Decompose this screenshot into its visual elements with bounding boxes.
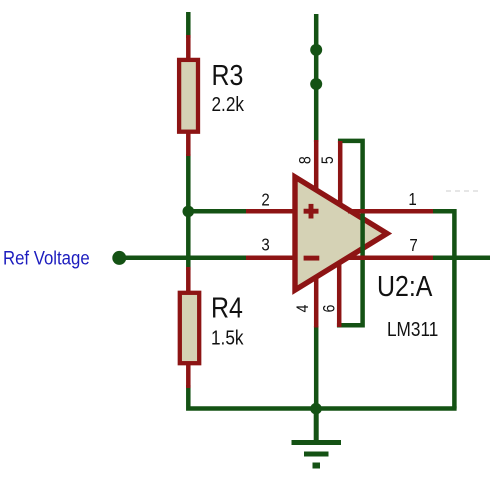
wire: loop connecting pin 5 to pin 6 (339, 141, 362, 325)
resistor R4 top lead (186, 267, 191, 294)
svg-text:R3: R3 (212, 59, 244, 91)
op-amp U2:A plus symbol (304, 204, 319, 219)
op-amp U2:A pin 6 stub (337, 263, 342, 327)
junction dot at bottom rail (310, 403, 322, 415)
op-amp U2:A pin 2 stub (246, 209, 295, 214)
wire: top-middle vertical (pin 8 net) (314, 14, 319, 142)
op-amp U2:A pin 5 stub (338, 141, 343, 204)
svg-text:LM311: LM311 (387, 318, 438, 341)
op-amp U2:A pin 7 stub (349, 256, 433, 261)
svg-text:U2:A: U2:A (377, 270, 432, 302)
svg-text:3: 3 (261, 236, 269, 255)
resistor R3 body (179, 60, 198, 132)
junction dot on top-middle net (upper) (310, 44, 322, 56)
wire: pin 4 down to bottom rail (314, 326, 319, 409)
op-amp U2:A pin 4 stub (314, 277, 319, 328)
svg-text:8: 8 (297, 156, 315, 164)
wire: pin 2 input from junction (188, 209, 248, 214)
svg-text:Ref Voltage: Ref Voltage (3, 247, 90, 268)
junction dot at pin 2 tap (183, 206, 195, 218)
op-amp U2:A pin 8 stub (314, 140, 319, 191)
svg-text:7: 7 (409, 236, 417, 255)
svg-text:1: 1 (408, 190, 416, 209)
resistor R3 bottom lead (186, 131, 191, 156)
op-amp U2:A pin 3 stub (246, 256, 295, 261)
faint dashed artifact top right (446, 190, 479, 192)
svg-text:1.5k: 1.5k (211, 326, 244, 349)
svg-text:2.2k: 2.2k (212, 93, 245, 116)
ground (292, 406, 342, 454)
svg-text:2: 2 (261, 190, 269, 209)
svg-text:R4: R4 (211, 292, 243, 324)
wire: Ref Voltage to pin 3 (119, 256, 248, 261)
op-amp U2:A triangle body (295, 177, 387, 290)
resistor R4 bottom lead (186, 363, 191, 388)
svg-text:6: 6 (321, 305, 339, 313)
node Ref Voltage terminal dot (112, 251, 126, 265)
junction dot on top-middle net (lower) (310, 78, 322, 90)
svg-text:5: 5 (319, 156, 337, 164)
resistor R4 body (180, 293, 199, 363)
svg-text:4: 4 (294, 304, 312, 312)
resistor R3 top lead (186, 35, 191, 60)
wire: left vertical below R4 down to bottom rail (188, 385, 456, 409)
wire: top-left vertical stub above R3 (186, 12, 191, 38)
wire: left vertical between R3 and R4 (186, 154, 191, 270)
op-amp U2:A pin 1 stub (348, 209, 433, 214)
wire: pin 7 output to right (431, 256, 490, 261)
wire: pin 1 to right then down feedback (431, 211, 454, 408)
op-amp U2:A minus symbol (304, 256, 320, 261)
